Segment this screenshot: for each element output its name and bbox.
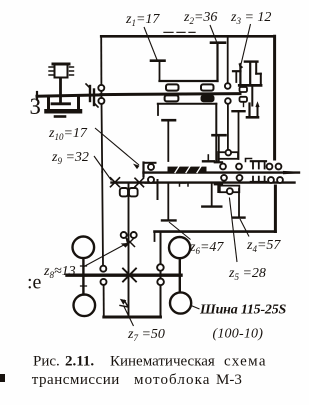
svg-text:z3 = 12: z3 = 12	[230, 10, 271, 26]
svg-text:z5 =28: z5 =28	[228, 266, 266, 282]
svg-text:z10=17: z10=17	[48, 126, 88, 142]
svg-text:z4=57: z4=57	[246, 238, 281, 254]
svg-text:z2=36: z2=36	[183, 10, 217, 26]
svg-text:z7 =50: z7 =50	[127, 327, 165, 343]
svg-text:z9 =32: z9 =32	[51, 150, 89, 166]
svg-text:З: З	[30, 94, 42, 119]
svg-text:Рис.2.11.Кинематическаясхема: Рис.2.11.Кинематическаясхема	[33, 354, 267, 370]
svg-text:z8≈13: z8≈13	[43, 264, 76, 280]
svg-text:Шина 115-25S: Шина 115-25S	[199, 303, 287, 318]
svg-text:(100-10): (100-10)	[213, 327, 264, 342]
svg-text:z1=17: z1=17	[125, 12, 160, 28]
svg-text:трансмиссиимотоблокаМ-3: трансмиссиимотоблокаМ-3	[32, 372, 242, 388]
svg-text::е: :е	[27, 272, 42, 294]
svg-text:z6=47: z6=47	[189, 240, 224, 256]
